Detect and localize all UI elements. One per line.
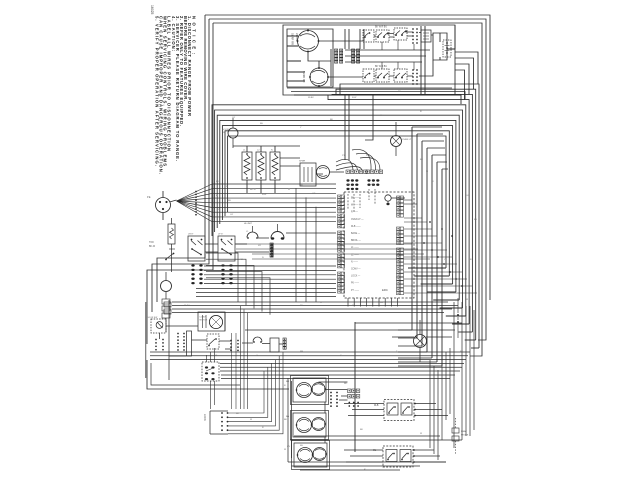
connector J4: [357, 49, 360, 52]
wire tb bottom3: [294, 95, 461, 104]
K4 contacts: [396, 73, 406, 77]
svg-text:ERC: ERC: [382, 288, 388, 292]
sensor dots: [457, 314, 459, 316]
wire harness bundle: [212, 184, 336, 222]
wire cluster links: [166, 326, 283, 344]
wire bus left loop2: [151, 363, 240, 385]
wire lock sw bottoms: [211, 381, 215, 409]
TOD switch: [166, 253, 174, 259]
wire tb inner l: [287, 36, 305, 81]
connector stack C4: [270, 243, 273, 246]
fan motor box: [198, 312, 225, 331]
connector P6: [366, 170, 370, 174]
K0a contacts: [365, 33, 369, 36]
svg-text:5. VERIFY PROPER OPERATION AFT: 5. VERIFY PROPER OPERATION AFTER SERVICI…: [154, 16, 159, 166]
wire board drops: [348, 298, 398, 307]
infinite switch S1: [188, 236, 205, 261]
wire tb center h: [345, 50, 430, 62]
cap stack: [162, 299, 170, 304]
svg-text:R ——: R ——: [351, 212, 359, 214]
svg-text:BU: BU: [380, 302, 383, 304]
board left terminals: [338, 195, 345, 293]
relay K0a: [363, 30, 374, 42]
relay K3: [376, 69, 389, 82]
wire harness drops: [296, 188, 316, 302]
door switch DS2 box: [151, 319, 166, 333]
wire bottom h: [288, 462, 446, 470]
top block inner box: [287, 29, 333, 87]
latch switch box: [207, 334, 219, 349]
svg-text:L2 ——: L2 ——: [351, 254, 359, 256]
element conn B: [348, 389, 352, 393]
svg-text:XFMR: XFMR: [299, 161, 306, 163]
svg-text:OR: OR: [312, 193, 316, 195]
fuse F1: [168, 224, 175, 244]
wire bottom bus: [150, 352, 470, 371]
wire el verts: [288, 378, 325, 462]
DS2 terminals: [155, 339, 157, 341]
wire inner vert bundle: [412, 127, 442, 366]
wire bus drops: [232, 306, 248, 409]
cluster conn CC1: [283, 338, 286, 341]
svg-text:N ——: N ——: [351, 261, 359, 263]
relay K4: [394, 69, 407, 82]
svg-text:DOOR SW: DOOR SW: [147, 317, 157, 319]
svg-text:DOOR: DOOR: [222, 129, 229, 131]
F1 leads: [171, 218, 173, 254]
K1 contacts: [378, 33, 388, 37]
wire left col: [166, 254, 172, 332]
thermostat arc A2: [271, 232, 284, 238]
wire lock sw tops: [207, 348, 215, 362]
coil X1: [242, 152, 252, 180]
L1 leads: [395, 122, 397, 156]
terminal strip T1: [412, 28, 414, 30]
coil X2: [256, 152, 266, 180]
P5 pins: [346, 179, 349, 181]
terminal cols TC2: [230, 340, 232, 342]
svg-text:W-BK: W-BK: [184, 305, 190, 307]
relay K1: [376, 30, 389, 42]
connector P5: [346, 170, 350, 174]
wire right links: [462, 302, 466, 440]
svg-text:BU: BU: [228, 200, 231, 202]
wire trunk vert A: [344, 95, 346, 160]
frame outer border: [205, 15, 490, 300]
thermal fuse TF: [161, 281, 172, 292]
svg-text:HI-LIMIT: HI-LIMIT: [244, 223, 253, 225]
svg-text:BK ——: BK ——: [351, 198, 360, 200]
top block outer box: [283, 25, 455, 95]
wire el links: [319, 382, 348, 400]
relay cluster R2: [383, 446, 413, 467]
wire R2 feeds: [344, 450, 446, 462]
buzzer BZ: [317, 166, 330, 179]
wire fan: [177, 184, 213, 222]
frame left outer: [157, 15, 205, 302]
svg-text:LOCK —: LOCK —: [351, 276, 361, 278]
coil X3: [270, 152, 280, 180]
svg-text:BU: BU: [260, 123, 263, 125]
wire lv x146: [145, 302, 147, 378]
surface switch SW-A: [298, 31, 319, 52]
svg-text:BK W R BU: BK W R BU: [375, 27, 387, 29]
svg-text:DLB: DLB: [374, 405, 379, 407]
latch marks: [209, 339, 215, 345]
oven sensor body: [443, 40, 451, 57]
SW-A terminals: [297, 40, 299, 42]
wire inner vert tops: [412, 127, 448, 169]
lock switch pills: [205, 366, 208, 368]
wire bus left loop: [147, 360, 289, 389]
wire comp links: [247, 146, 275, 193]
element pair E2: [293, 413, 326, 437]
wire trunk vert B: [348, 95, 350, 160]
thermostat arc A1: [247, 232, 258, 237]
thermo arc A3: [253, 337, 262, 341]
svg-text:RD: RD: [344, 383, 348, 385]
wire switch staircase: [206, 253, 270, 315]
connector J1: [335, 49, 338, 52]
svg-text:OVEN LT: OVEN LT: [402, 139, 412, 141]
control board outline: [344, 192, 414, 298]
infinite switch S2: [218, 236, 235, 261]
DS2 rotor: [156, 322, 163, 329]
wire mid crossers: [236, 244, 430, 259]
svg-text:P6 ——: P6 ——: [351, 283, 360, 285]
wire br bus: [290, 436, 462, 440]
S1 terminals: [191, 264, 194, 266]
K3 contacts: [378, 73, 388, 77]
wire tb right: [421, 25, 455, 95]
svg-text:BR: BR: [300, 351, 303, 353]
frame left middle: [152, 19, 209, 312]
wire tb mid: [308, 29, 331, 86]
lock bracket: [210, 411, 228, 434]
svg-text:TOD: TOD: [149, 242, 154, 244]
oven sensor marks: [446, 42, 448, 44]
svg-text:16025: 16025: [150, 5, 154, 15]
connector J2: [340, 49, 343, 52]
wire mid-left bus: [172, 302, 458, 313]
svg-text:GY: GY: [371, 184, 375, 186]
cap pair CP1: [164, 302, 171, 307]
wire board stubs: [404, 200, 477, 293]
svg-text:BK-W: BK-W: [250, 189, 257, 191]
lock switch marks: [206, 369, 212, 372]
S2 terminals: [221, 264, 224, 266]
relay K2: [394, 28, 407, 40]
wire tb row1: [319, 32, 434, 41]
breaker box B1: [421, 30, 431, 42]
terminal strip T2: [412, 69, 414, 71]
OL leads: [419, 320, 421, 362]
board silk text: [351, 198, 364, 292]
wire mid bus hooks: [408, 268, 479, 348]
terminal cols TC1: [177, 333, 179, 335]
svg-text:LR 8″: LR 8″: [188, 234, 194, 236]
wire tb bottom2: [291, 92, 465, 100]
connector J3: [352, 49, 355, 52]
wire inner vert hooks: [398, 330, 442, 366]
connector dashes: [348, 189, 375, 212]
svg-text:BU: BU: [347, 184, 350, 186]
svg-text:LF 6″: LF 6″: [218, 234, 223, 236]
wire tb row1b: [389, 36, 413, 37]
svg-text:GY: GY: [230, 214, 234, 216]
transformer box: [300, 163, 316, 186]
K2 contacts: [396, 31, 406, 35]
P6 pins: [367, 179, 370, 181]
wire lock feeds: [228, 352, 283, 434]
wire el vert mid: [354, 322, 356, 452]
cluster box CB1: [270, 338, 279, 352]
door switch DS1: [228, 128, 238, 138]
svg-text:CV: CV: [287, 446, 291, 448]
wire mid bus bundle: [212, 84, 479, 348]
svg-text:2400W: 2400W: [295, 33, 298, 42]
board right terminals: [397, 196, 404, 295]
SW-B inner arcs: [312, 70, 325, 83]
wire br verts: [430, 302, 474, 460]
svg-text:W-BK: W-BK: [308, 97, 314, 99]
svg-text:SURF RR: SURF RR: [291, 33, 295, 45]
svg-text:DLB ——: DLB ——: [351, 226, 361, 228]
element pair E1: [293, 378, 326, 402]
power plug P1: [156, 198, 171, 213]
wire R1 feeds: [344, 404, 448, 416]
wire comp h2: [280, 158, 300, 166]
svg-text:P.E.: P.E.: [147, 197, 151, 199]
lamp L1: [391, 136, 402, 147]
svg-text:CONV: CONV: [200, 317, 207, 319]
svg-text:P7 ——: P7 ——: [351, 290, 360, 292]
svg-text:MOTOR: MOTOR: [200, 320, 208, 322]
wire cluster links2: [160, 312, 232, 356]
svg-text:L1 ——: L1 ——: [351, 247, 359, 249]
wire tb verts: [345, 29, 364, 49]
wire below bus: [221, 375, 455, 379]
wire comp h1: [233, 146, 344, 174]
plug stem: [170, 200, 177, 202]
probe stack: [452, 428, 459, 433]
svg-text:BK W R BU: BK W R BU: [375, 66, 387, 68]
svg-text:GY: GY: [466, 195, 470, 197]
svg-text:GY: GY: [214, 355, 218, 357]
wire tb row2: [328, 60, 433, 77]
wire color labels: [184, 91, 477, 471]
wire tb bottom1: [287, 87, 452, 89]
oven sensor box: [433, 33, 447, 60]
wire mid links: [245, 323, 462, 337]
svg-text:GY: GY: [232, 117, 236, 119]
oven light OL: [414, 335, 427, 348]
wire corner stack P: [455, 52, 478, 100]
element conn A: [330, 392, 332, 394]
bus junction dots: [423, 221, 463, 287]
lock terminals: [221, 412, 223, 414]
wire lv x169: [168, 300, 170, 380]
svg-text:BU: BU: [300, 445, 303, 447]
wire tb center v: [382, 40, 414, 70]
frame middle border: [209, 19, 486, 340]
relay box RB0: [187, 331, 192, 356]
surface switch SW-B: [310, 68, 328, 86]
wire sw links: [205, 233, 336, 252]
fan motor M1: [209, 315, 222, 328]
svg-text:CONV —: CONV —: [351, 269, 361, 271]
svg-text:W ——: W ——: [351, 205, 359, 207]
SW-A inner arcs: [300, 34, 315, 49]
pilot lamp PL: [385, 195, 391, 201]
frame inner border: [213, 23, 482, 356]
notes text block: [154, 16, 196, 174]
SW-B terminals: [309, 76, 311, 78]
svg-text:BU: BU: [474, 219, 477, 221]
K0b contacts: [365, 74, 369, 77]
element pair E3: [294, 443, 327, 467]
fan comb dots: [195, 191, 197, 193]
svg-text:LOCK: LOCK: [203, 414, 206, 421]
svg-text:BAKE —: BAKE —: [351, 232, 361, 235]
svg-text:OVEN LT —: OVEN LT —: [351, 219, 364, 221]
relay K0b: [363, 69, 374, 82]
lock switch assembly box: [202, 362, 219, 381]
svg-text:BK-W: BK-W: [149, 246, 156, 248]
wire trunk vert C: [365, 95, 373, 140]
svg-text:BROIL —: BROIL —: [351, 240, 361, 242]
relay cluster R1: [384, 400, 414, 421]
frame left inner: [147, 23, 213, 344]
wire sw-to-board: [196, 266, 336, 297]
wire strip arcs: [336, 149, 380, 170]
